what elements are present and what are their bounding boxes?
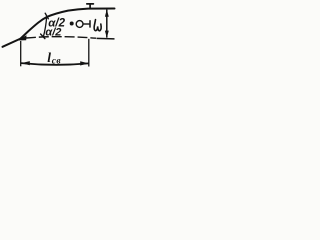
solid baseline extension under e dimension xyxy=(97,37,115,40)
dimension line l_sv xyxy=(21,63,89,65)
indicator end bar xyxy=(89,20,91,27)
tick on strip (top end of angle arc) xyxy=(45,13,48,19)
dashed horizontal baseline xyxy=(26,37,96,39)
angle dimension arc xyxy=(43,17,46,38)
right extension line of l_sv xyxy=(88,39,90,67)
arrowhead up xyxy=(105,9,109,16)
T tick marking strip end on top line xyxy=(87,4,94,8)
indicator circle symbol xyxy=(76,21,83,28)
paper background xyxy=(0,0,122,73)
arrowhead left xyxy=(21,61,30,65)
dot marker xyxy=(70,22,74,26)
tick on baseline (bottom end of angle arc) xyxy=(41,34,45,39)
indicator stem xyxy=(83,23,89,25)
left extension line of l_sv xyxy=(20,41,22,66)
arrowhead down xyxy=(105,31,109,38)
svg-text:α/2: α/2 xyxy=(45,26,61,38)
vertical dimension line for e xyxy=(106,10,108,38)
label e (rotated epsilon) xyxy=(94,20,101,31)
strip left tail (chord extension) xyxy=(3,39,21,47)
bent strip arc rising to right then flat top reference line xyxy=(21,9,115,39)
vertex junction wedge xyxy=(17,35,26,40)
arrowhead right xyxy=(80,61,88,65)
